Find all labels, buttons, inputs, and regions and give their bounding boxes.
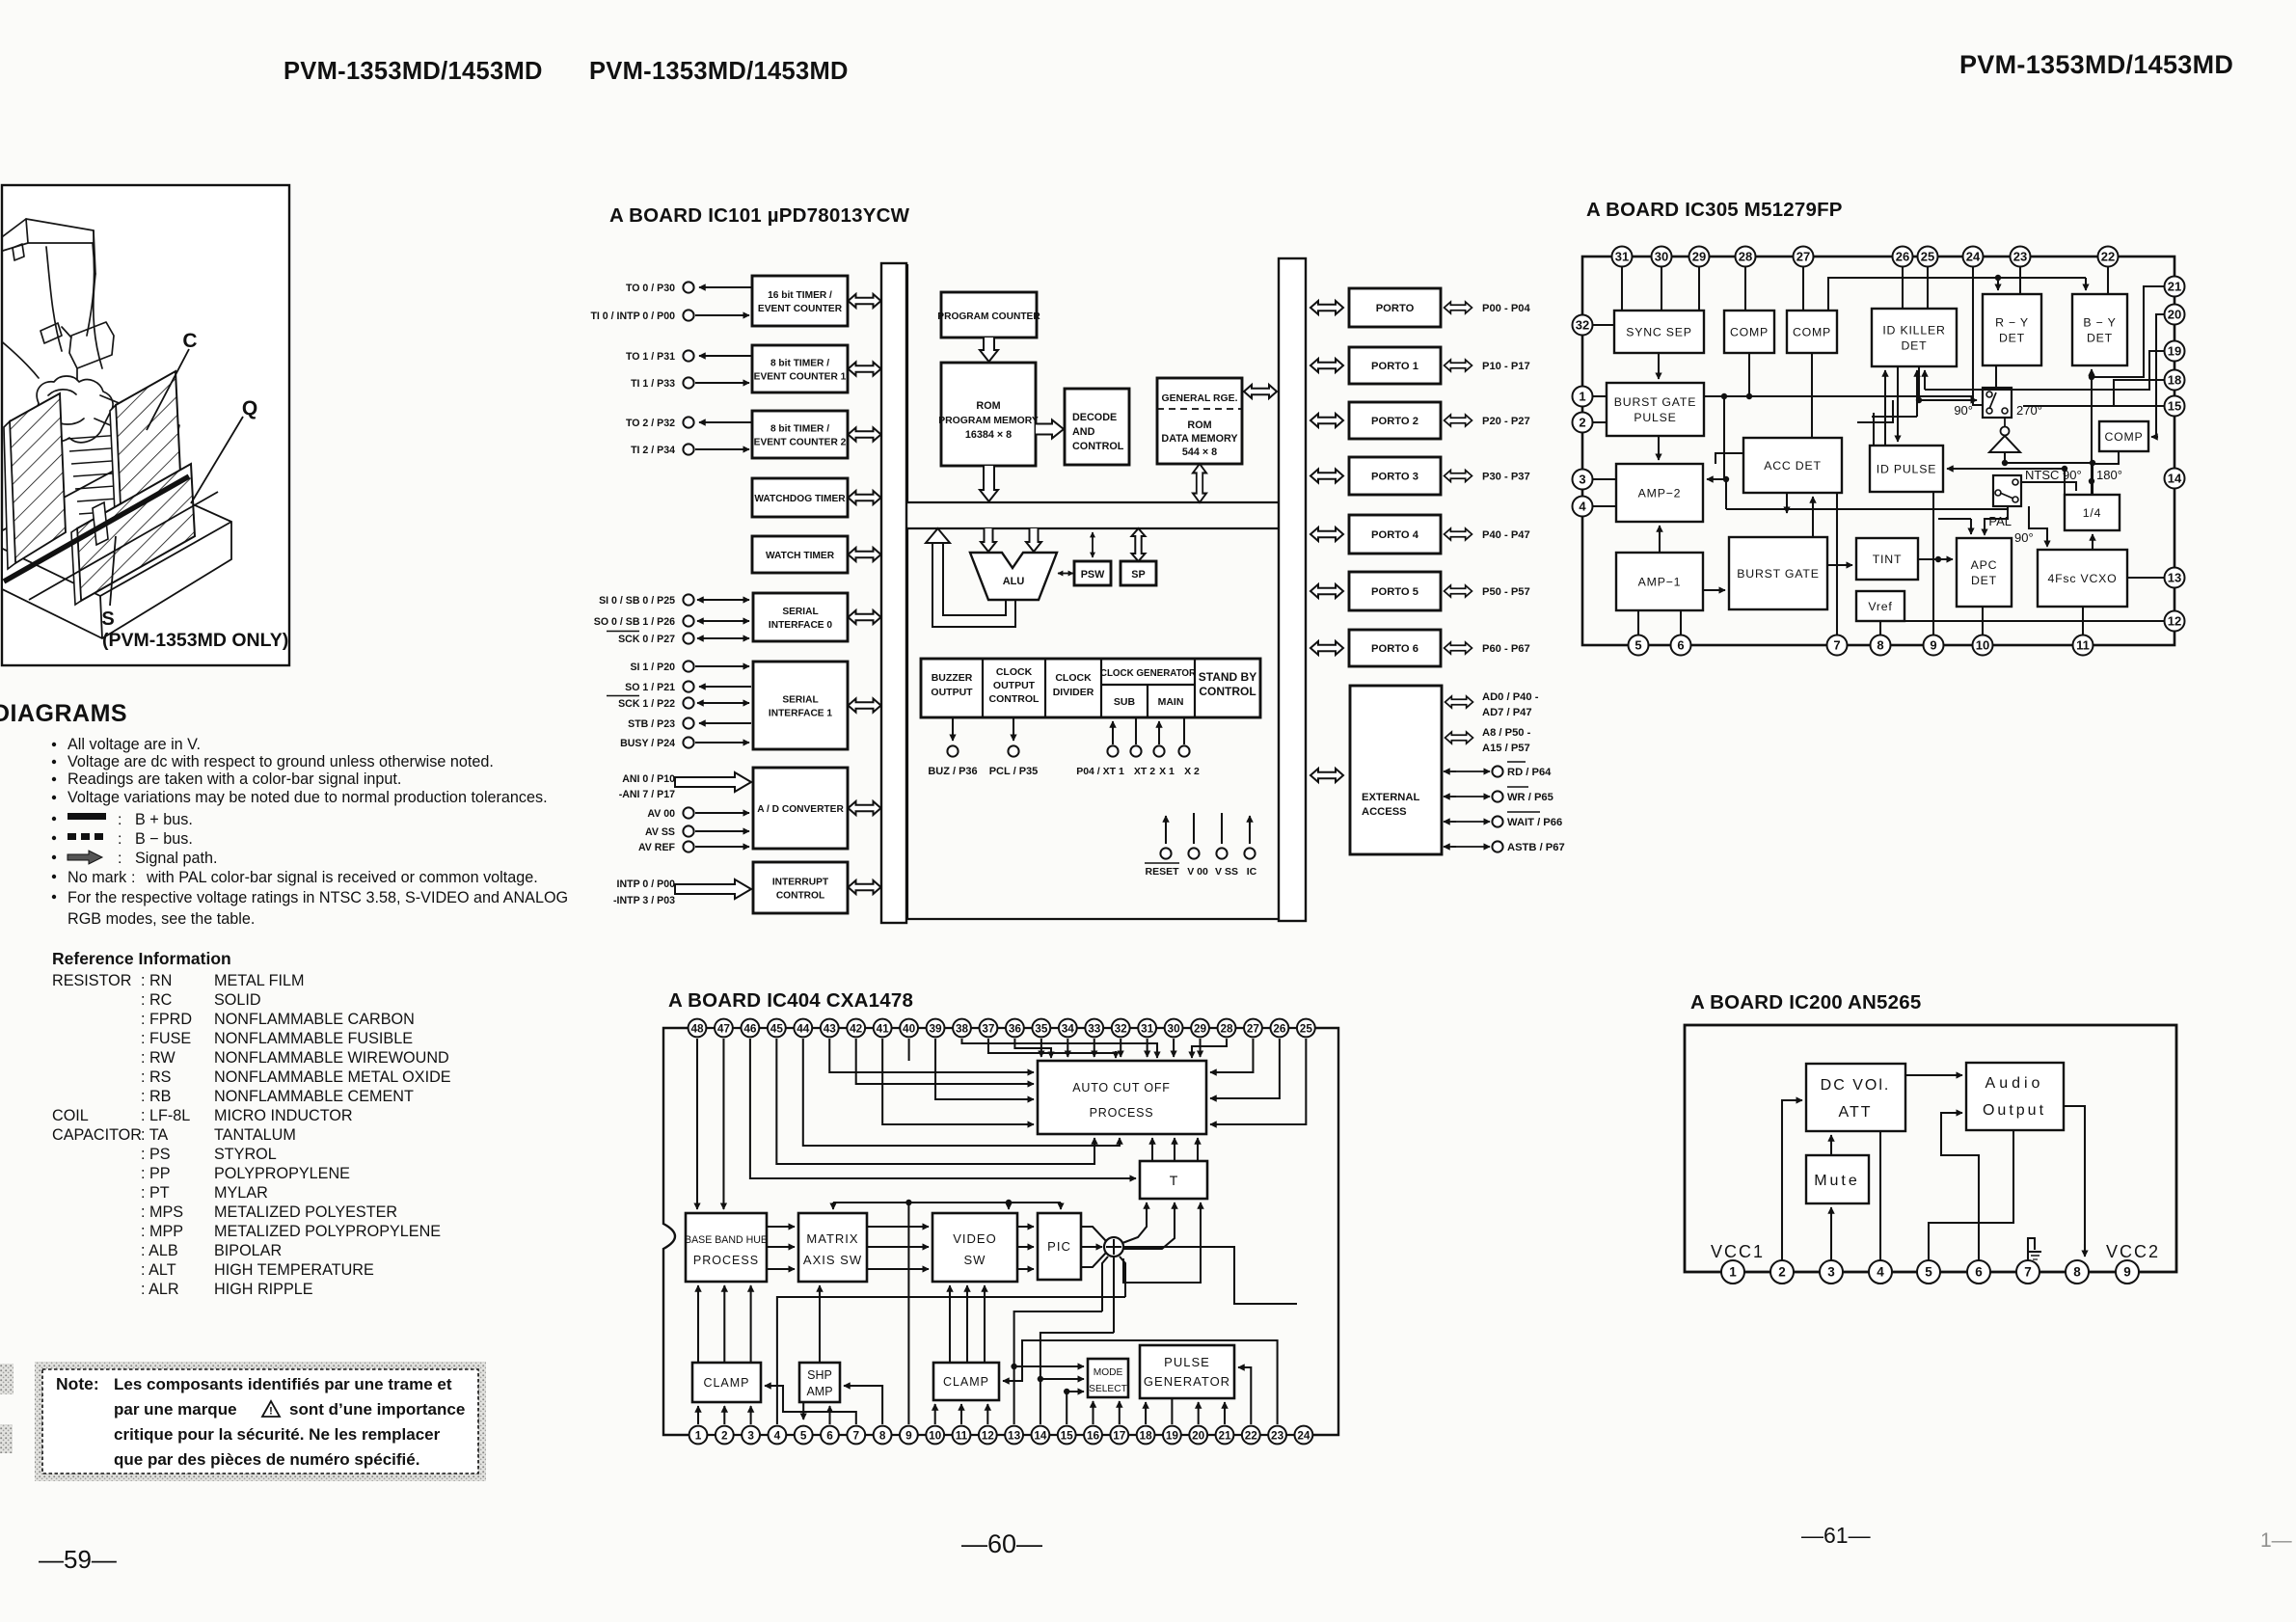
svg-text:CLOCK: CLOCK — [996, 666, 1033, 678]
svg-text:Voltage are dc with respect to: Voltage are dc with respect to ground un… — [68, 753, 494, 770]
pin P04/XT1 — [1112, 721, 1114, 744]
pin 2 — [1573, 413, 1593, 433]
wire BGP output line — [1704, 395, 1973, 397]
program counter box — [941, 292, 1037, 338]
svg-text:ID KILLER: ID KILLER — [1882, 324, 1945, 338]
pin 28 — [1736, 247, 1756, 267]
svg-text:XT 2: XT 2 — [1134, 766, 1155, 777]
note box with stippled border — [35, 1362, 486, 1481]
pin 4 — [769, 1426, 787, 1445]
pin X1 — [1158, 721, 1160, 744]
svg-text:AD0 / P40 -: AD0 / P40 - — [1482, 691, 1539, 703]
wire branch into AMP-2 — [1723, 396, 1725, 479]
distribution line — [833, 1202, 1061, 1203]
AUTO CUT OFF PROCESS box — [1038, 1061, 1206, 1134]
svg-text:25: 25 — [1300, 1021, 1313, 1035]
svg-text:GENERATOR: GENERATOR — [1144, 1374, 1230, 1389]
pin 47 — [715, 1019, 733, 1038]
svg-text:90°: 90° — [2014, 530, 2034, 545]
svg-text:COMP: COMP — [1730, 326, 1769, 339]
svg-text:3: 3 — [1827, 1264, 1835, 1279]
svg-text:PORTO 3: PORTO 3 — [1371, 472, 1418, 483]
wire pin11 to VCXO — [2082, 607, 2084, 635]
svg-text:MODE: MODE — [1094, 1367, 1123, 1378]
svg-text:EVENT COUNTER: EVENT COUNTER — [758, 304, 843, 314]
bar S — [4, 476, 189, 581]
pin 18 — [1137, 1426, 1155, 1445]
ACC DET box — [1743, 438, 1842, 493]
bus arrow — [849, 491, 881, 504]
serial interface 1 box — [753, 662, 848, 749]
arrow T to ACP — [1197, 1138, 1199, 1161]
pin 40 — [900, 1019, 918, 1038]
port pins arrow right — [1445, 415, 1472, 426]
wire pin29 to ACP top — [1200, 1039, 1202, 1057]
svg-text:CONTROL: CONTROL — [776, 891, 824, 902]
bottom pin row line — [688, 1434, 1304, 1436]
svg-text:20: 20 — [2168, 307, 2181, 321]
svg-text:HIGH RIPPLE: HIGH RIPPLE — [214, 1281, 313, 1298]
svg-text:TO 0 / P30: TO 0 / P30 — [626, 283, 675, 294]
B-Y DET box — [2072, 294, 2127, 365]
svg-text:Note:: Note: — [56, 1374, 99, 1393]
svg-text:22: 22 — [1245, 1428, 1258, 1442]
pin 37 — [980, 1019, 998, 1038]
svg-text:STYROL: STYROL — [214, 1146, 277, 1163]
svg-text:DC VOl.: DC VOl. — [1821, 1077, 1891, 1094]
pin TO2/P32 — [683, 417, 693, 427]
PULSE GENERATOR box — [1140, 1345, 1234, 1398]
svg-text::: : — [118, 812, 122, 828]
svg-text:6: 6 — [1677, 637, 1684, 652]
bus arrow — [849, 428, 881, 442]
svg-text:C: C — [182, 330, 197, 352]
svg-text:TI 0 / INTP 0 / P00: TI 0 / INTP 0 / P00 — [590, 311, 675, 322]
svg-text:21: 21 — [2168, 279, 2181, 293]
wire AMP-1 to BURST GATE — [1703, 589, 1725, 591]
svg-text:DET: DET — [2087, 332, 2113, 345]
wire pin38 elbow to ACP top — [962, 1039, 1158, 1057]
svg-text:SCK 0 / P27: SCK 0 / P27 — [618, 634, 675, 645]
anode cap and lead — [87, 243, 95, 336]
PORTO 5 box — [1349, 572, 1441, 610]
port pins arrow right — [1445, 471, 1472, 482]
svg-text:P40 - P47: P40 - P47 — [1482, 529, 1530, 541]
svg-text:AMP−2: AMP−2 — [1638, 487, 1682, 500]
svg-text:15: 15 — [2168, 398, 2181, 413]
svg-text:5: 5 — [800, 1428, 807, 1442]
arrow into PIC top — [1060, 1203, 1062, 1209]
PORTO 6 box — [1349, 630, 1441, 666]
wire pin32 to ACP top — [1120, 1039, 1121, 1057]
wire pin7 riser — [1836, 493, 1838, 635]
signal arrow — [1017, 1246, 1034, 1248]
svg-text:3: 3 — [1579, 472, 1585, 486]
pin SI0/SB0/P25 — [683, 594, 693, 605]
svg-text:VCC1: VCC1 — [1711, 1242, 1765, 1261]
svg-text:ALU: ALU — [1003, 576, 1025, 587]
svg-text:EXTERNAL: EXTERNAL — [1362, 792, 1419, 803]
bus arrow — [849, 610, 881, 624]
wire AMP-1 to pin6 — [1680, 610, 1682, 635]
pin 5 — [1917, 1260, 1940, 1284]
svg-text:18: 18 — [2168, 372, 2181, 387]
COMP box 3 — [2099, 421, 2148, 451]
pin WAIT / P66 — [1444, 821, 1456, 823]
ALU feedback loop — [932, 542, 1015, 627]
PORTO box — [1349, 288, 1441, 327]
svg-text:SP: SP — [1131, 569, 1145, 581]
svg-text:CONTROL: CONTROL — [1199, 685, 1256, 698]
svg-text:: FUSE: : FUSE — [141, 1030, 191, 1047]
bus arrow left — [1310, 359, 1343, 372]
pin XT2 — [1135, 717, 1137, 744]
pin 15 — [1058, 1426, 1076, 1445]
svg-text:MATRIX: MATRIX — [806, 1231, 858, 1246]
wire pin4 riser to summing — [777, 1297, 1125, 1424]
wire pin2 to BGP — [1593, 421, 1607, 423]
pin X2 — [1183, 717, 1185, 744]
svg-text:PORTO 2: PORTO 2 — [1371, 416, 1418, 427]
svg-text:WATCH TIMER: WATCH TIMER — [766, 551, 835, 561]
wire pin48 to BBH — [696, 1039, 698, 1209]
label Q — [191, 417, 243, 503]
pin SCK0/P27 — [683, 633, 693, 643]
wire top feed line — [1828, 278, 2086, 311]
svg-text:8 bit TIMER /: 8 bit TIMER / — [770, 359, 829, 369]
pin 41 — [874, 1019, 892, 1038]
wire SHP AMP to pin5 — [802, 1402, 804, 1419]
svg-text:AMP: AMP — [806, 1385, 832, 1398]
svg-text:DET: DET — [1999, 332, 2025, 345]
svg-text:BASE BAND HUE: BASE BAND HUE — [685, 1234, 768, 1246]
svg-text:Readings are taken with a colo: Readings are taken with a color-bar sign… — [68, 770, 401, 788]
svg-text:45: 45 — [770, 1021, 784, 1035]
svg-text:TO 2 / P32: TO 2 / P32 — [626, 418, 675, 429]
svg-text:PROGRAM MEMORY: PROGRAM MEMORY — [938, 416, 1039, 426]
wire pin34 to ACP top — [1067, 1039, 1068, 1057]
svg-text:Audio: Audio — [1985, 1075, 2044, 1092]
pin 21 — [1216, 1426, 1234, 1445]
svg-text:P00 - P04: P00 - P04 — [1482, 303, 1531, 314]
CLAMP box 1 — [692, 1363, 761, 1402]
signal arrow — [767, 1246, 795, 1248]
wire pin26 to ID KILLER — [1902, 267, 1904, 309]
legend last bullet — [52, 895, 56, 899]
wire SHP AMP to MATRIX — [819, 1285, 821, 1363]
svg-text:PIC: PIC — [1047, 1239, 1071, 1254]
wire pin11 to CLAMP2 — [960, 1404, 962, 1424]
wire pin25 to ID KILLER — [1927, 267, 1929, 309]
pin AVREF — [683, 841, 693, 852]
svg-text:35: 35 — [1035, 1021, 1048, 1035]
svg-text::: : — [131, 870, 135, 886]
svg-text:A BOARD IC404 CXA1478: A BOARD IC404 CXA1478 — [668, 989, 913, 1012]
wire pin30 to ACP top — [1173, 1039, 1175, 1057]
pin 23 — [2011, 247, 2031, 267]
AD0/P40-AD7/P47 arrow — [1445, 696, 1473, 708]
arrows into ALU from bus line — [981, 528, 996, 552]
svg-text:Reference Information: Reference Information — [52, 949, 231, 968]
pin TI2/P34 — [683, 444, 693, 454]
svg-text:CLOCK: CLOCK — [1055, 672, 1092, 684]
pin 22 — [2098, 247, 2119, 267]
svg-text:A8 / P50 -: A8 / P50 - — [1482, 727, 1531, 739]
svg-text:38: 38 — [956, 1021, 969, 1035]
svg-text:ACCESS: ACCESS — [1362, 806, 1407, 818]
wire pin15 net — [2023, 405, 2164, 407]
pin TO0/P30 — [683, 282, 693, 292]
svg-text:19: 19 — [2168, 343, 2181, 358]
pin 6 — [1671, 635, 1691, 656]
port pins arrow right — [1445, 360, 1472, 371]
svg-text:3: 3 — [747, 1428, 754, 1442]
svg-text:: RN: : RN — [141, 972, 172, 989]
svg-text:BIPOLAR: BIPOLAR — [214, 1242, 282, 1259]
svg-text:19: 19 — [1166, 1428, 1179, 1442]
svg-text:13: 13 — [2168, 570, 2181, 584]
svg-text:24: 24 — [1966, 249, 1981, 263]
svg-text:INTP 0 / P00: INTP 0 / P00 — [617, 879, 676, 890]
pin 29 — [1191, 1019, 1209, 1038]
svg-text:P60 - P67: P60 - P67 — [1482, 643, 1530, 655]
svg-text:26: 26 — [1273, 1021, 1286, 1035]
IC305 outer boundary — [1582, 257, 2174, 645]
pin 30 — [1652, 247, 1672, 267]
pin TI0/INTP0/P00 — [683, 310, 693, 320]
svg-text:STB / P23: STB / P23 — [628, 718, 675, 730]
svg-text:B − Y: B − Y — [2083, 316, 2116, 330]
svg-text:P10 - P17: P10 - P17 — [1482, 361, 1530, 372]
AMP-2 box — [1616, 464, 1703, 522]
Mute box — [1806, 1155, 1869, 1203]
svg-text:WATCHDOG TIMER: WATCHDOG TIMER — [754, 494, 846, 504]
wire pin46 to T box — [750, 1039, 1136, 1178]
legend B minus bus — [52, 836, 56, 840]
svg-text:HIGH TEMPERATURE: HIGH TEMPERATURE — [214, 1261, 374, 1279]
wire pin21 net to B-Y and 1/4 — [2092, 286, 2164, 377]
svg-text:30: 30 — [1655, 249, 1668, 263]
svg-text:V 00: V 00 — [1187, 866, 1208, 878]
bus arrow — [849, 548, 881, 561]
VIDEO SW box — [932, 1213, 1017, 1282]
pin VDD — [1193, 813, 1195, 844]
svg-text:8 bit TIMER /: 8 bit TIMER / — [770, 424, 829, 435]
svg-text:OUTPUT: OUTPUT — [993, 680, 1036, 691]
wire BGP to AMP-2 — [1658, 436, 1660, 460]
wire pal 90 elbow — [2029, 506, 2047, 546]
svg-text:with PAL color-bar signal is r: with PAL color-bar signal is received or… — [146, 869, 538, 886]
port pins arrow right — [1445, 528, 1472, 540]
svg-text:9: 9 — [2123, 1264, 2131, 1279]
svg-text:BUZ / P36: BUZ / P36 — [928, 766, 977, 777]
svg-text:(PVM-1353MD ONLY): (PVM-1353MD ONLY) — [102, 630, 288, 651]
pin ASTB / P67 — [1444, 846, 1456, 848]
pin 1 — [1721, 1260, 1744, 1284]
svg-text:RESISTOR: RESISTOR — [52, 972, 131, 989]
svg-text:SCK 1 / P22: SCK 1 / P22 — [618, 698, 675, 710]
notes bullet list — [52, 743, 56, 746]
wire pin17 to MODE — [1119, 1401, 1121, 1424]
wire pin25 to ACP right — [1210, 1039, 1306, 1124]
pin 38 — [953, 1019, 971, 1038]
shield panel C — [116, 371, 181, 528]
svg-text:WR / P65: WR / P65 — [1507, 792, 1553, 803]
deflection yoke — [37, 376, 113, 443]
pin 27 — [1794, 247, 1814, 267]
svg-text:21: 21 — [1218, 1428, 1231, 1442]
pin 35 — [1032, 1019, 1050, 1038]
IC101 lower section outline — [907, 528, 1279, 919]
wire CLAMP2 to VIDEO SW — [966, 1285, 968, 1363]
svg-text:-INTP 3 / P03: -INTP 3 / P03 — [613, 895, 675, 906]
AMP-1 box — [1616, 553, 1703, 610]
svg-text:COMP: COMP — [2104, 430, 2143, 444]
wire left into switch — [1919, 399, 1977, 401]
wire pin31 to ACP top — [1147, 1039, 1148, 1057]
wire pin3 to CLAMP1 — [750, 1406, 752, 1424]
svg-text:8: 8 — [1877, 637, 1883, 652]
svg-text:All voltage are in V.: All voltage are in V. — [68, 736, 201, 753]
svg-text:44: 44 — [797, 1021, 810, 1035]
bus arrow — [849, 294, 881, 308]
svg-text:INTERFACE 1: INTERFACE 1 — [769, 709, 833, 719]
arrows into T bottom — [1122, 1203, 1147, 1243]
pin 32 — [1112, 1019, 1130, 1038]
svg-text:SHP: SHP — [807, 1368, 832, 1382]
pin 5 — [1629, 635, 1649, 656]
ID PULSE box — [1870, 446, 1943, 492]
svg-text:MYLAR: MYLAR — [214, 1184, 268, 1202]
pin 24 — [1963, 247, 1984, 267]
svg-text:7: 7 — [2024, 1264, 2032, 1279]
pin 23 — [1268, 1426, 1286, 1445]
pin 12 — [979, 1426, 997, 1445]
wire pin4 to DC ATT — [1879, 1131, 1881, 1260]
PORTO 4 box — [1349, 515, 1441, 554]
wire ID PULSE input — [1947, 468, 2065, 470]
svg-text:28: 28 — [1220, 1021, 1233, 1035]
svg-text:180°: 180° — [2096, 468, 2122, 482]
wire pin9 to ID PULSE — [1932, 492, 1934, 635]
svg-text:NTSC 90°: NTSC 90° — [2025, 468, 2082, 482]
pin RD / P64 — [1444, 770, 1456, 772]
wire AMP-1 to pin5 — [1637, 610, 1639, 635]
pin SCK1/P22 — [683, 697, 693, 708]
svg-text:For the respective voltage rat: For the respective voltage ratings in NT… — [68, 889, 568, 906]
pin SI1/P20 — [683, 661, 693, 671]
top pin row line — [689, 1027, 1306, 1029]
signal arrow — [1017, 1268, 1034, 1270]
svg-text:48: 48 — [690, 1021, 704, 1035]
A/D converter box — [753, 768, 848, 849]
pin 8 — [874, 1426, 892, 1445]
svg-text:11: 11 — [956, 1428, 968, 1442]
wire pin37 elbow to ACP top — [988, 1039, 1116, 1057]
svg-text:SI 0 / SB 0 / P25: SI 0 / SB 0 / P25 — [599, 595, 675, 607]
label S — [110, 536, 116, 606]
wire pin35 to ACP top — [1040, 1039, 1042, 1057]
pin 14 — [2165, 469, 2185, 489]
svg-text:STAND BY: STAND BY — [1199, 670, 1256, 684]
svg-text:13: 13 — [1008, 1428, 1021, 1442]
pin ANI0/P10-ANI7/P17 (hollow arrow) — [675, 772, 751, 792]
svg-text:1: 1 — [695, 1428, 702, 1442]
pin TI1/P33 — [683, 377, 693, 388]
pin TO1/P31 — [683, 350, 693, 361]
wire pin26 to ACP right — [1210, 1039, 1280, 1098]
wire pin39 to ACP left — [935, 1039, 1034, 1099]
svg-text::: : — [118, 851, 122, 867]
svg-text:PSW: PSW — [1081, 569, 1105, 581]
svg-text:29: 29 — [1194, 1021, 1207, 1035]
wire pin41 to ACP left — [882, 1039, 1034, 1124]
svg-text:par une marque: par une marque — [114, 1400, 237, 1419]
pin INTP0/P00-INTP3/P03 (hollow arrow) — [675, 879, 751, 899]
svg-text:: PP: : PP — [141, 1165, 171, 1182]
summing node — [1104, 1237, 1123, 1257]
svg-text:SO 0 / SB 1 / P26: SO 0 / SB 1 / P26 — [594, 616, 675, 628]
svg-text:: ALR: : ALR — [141, 1281, 179, 1298]
wire COMP1 down — [1748, 353, 1750, 396]
svg-text:9: 9 — [1930, 637, 1936, 652]
bus arrow — [849, 699, 881, 713]
pin 29 — [1689, 247, 1710, 267]
svg-text:SI 1 / P20: SI 1 / P20 — [630, 662, 675, 673]
R-Y DET box — [1983, 294, 2041, 365]
svg-text:5: 5 — [1925, 1264, 1932, 1279]
pin 10 — [926, 1426, 944, 1445]
mode select input 3 — [1066, 1392, 1067, 1424]
svg-text:: MPP: : MPP — [141, 1223, 183, 1240]
svg-text:2: 2 — [1778, 1264, 1786, 1279]
pin 14 — [1032, 1426, 1050, 1445]
pin7 ground symbol — [2028, 1238, 2035, 1260]
svg-text:26: 26 — [1896, 249, 1909, 263]
svg-text:T: T — [1170, 1173, 1178, 1188]
svg-text:—59—: —59— — [39, 1545, 117, 1574]
svg-text:1: 1 — [1579, 389, 1585, 403]
pin 24 — [1295, 1426, 1313, 1445]
svg-text:VCC2: VCC2 — [2106, 1242, 2160, 1261]
svg-text:PORTO 5: PORTO 5 — [1371, 586, 1418, 598]
svg-text:A15 / P57: A15 / P57 — [1482, 743, 1530, 754]
svg-text:10: 10 — [929, 1428, 942, 1442]
wire AMP-1 to AMP-2 — [1659, 526, 1661, 553]
svg-text:X 1: X 1 — [1159, 766, 1175, 777]
DC VOL ATT box — [1806, 1064, 1905, 1131]
svg-text:: FPRD: : FPRD — [141, 1011, 192, 1028]
svg-text:28: 28 — [1739, 249, 1752, 263]
svg-text:7: 7 — [853, 1428, 860, 1442]
pin 9 — [2116, 1260, 2139, 1284]
MATRIX AXIS SW box — [798, 1213, 867, 1282]
pin BUZ/P36 — [952, 717, 954, 741]
svg-text:No mark: No mark — [68, 869, 127, 886]
svg-text:4: 4 — [774, 1428, 781, 1442]
interrupt control box — [753, 862, 848, 913]
bus arrow left — [1310, 527, 1343, 541]
svg-text::: : — [118, 831, 122, 848]
svg-text:RD / P64: RD / P64 — [1507, 767, 1552, 778]
svg-text:PVM-1353MD/1453MD: PVM-1353MD/1453MD — [284, 58, 543, 85]
pin 18 — [2165, 370, 2185, 391]
SP box — [1121, 561, 1156, 585]
svg-text:NONFLAMMABLE CEMENT: NONFLAMMABLE CEMENT — [214, 1088, 414, 1105]
APC DET box — [1957, 538, 2012, 607]
svg-text:PROCESS: PROCESS — [693, 1254, 759, 1267]
svg-text:34: 34 — [1062, 1021, 1075, 1035]
